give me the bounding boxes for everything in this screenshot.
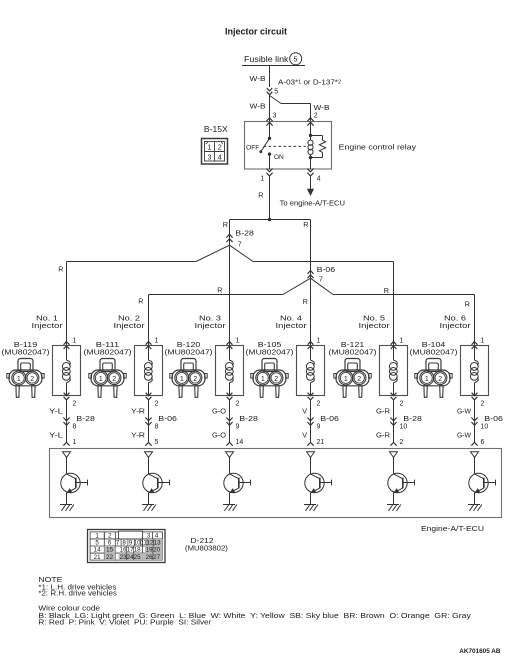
wire R from relay pin 1 xyxy=(269,176,271,220)
svg-text:R: R xyxy=(384,286,389,295)
svg-text:2: 2 xyxy=(73,401,77,408)
label B-28 (injector 1) xyxy=(76,414,95,423)
injector 5 terminal 1 chevrons xyxy=(391,342,397,349)
injector 3 terminal 2 chevrons xyxy=(227,393,233,400)
svg-text:7: 7 xyxy=(238,241,242,248)
in-line connector B-28 chevrons (injector 3) xyxy=(226,418,232,426)
svg-text:2: 2 xyxy=(438,376,442,383)
in-line connector B-06 chevrons (injector 6) xyxy=(471,418,477,426)
svg-text:8: 8 xyxy=(73,423,77,430)
svg-text:9: 9 xyxy=(129,540,133,547)
wire B-06 fan right diagonal xyxy=(311,278,334,294)
pin 7 of B-06 xyxy=(319,276,323,283)
relay switch arm (OFF position) xyxy=(259,138,269,153)
wire W-B from fusible link xyxy=(269,66,271,88)
svg-text:1: 1 xyxy=(73,337,77,344)
injector 1 coil box xyxy=(53,346,81,396)
relay pin 3 terminal chevrons xyxy=(266,118,272,126)
label B-28 (injector 5) xyxy=(403,414,422,423)
svg-text:6: 6 xyxy=(481,439,485,446)
wire colour code heading xyxy=(38,605,100,612)
svg-text:B-28: B-28 xyxy=(235,229,254,238)
pin 14 of engine-A/T-ECU xyxy=(236,439,244,446)
injector 2 coil xyxy=(144,346,152,396)
connector B-104 label xyxy=(410,340,458,357)
svg-text:27: 27 xyxy=(153,554,160,561)
pin 1 of injector 3 xyxy=(236,337,240,344)
transistor Q5 xyxy=(388,457,415,504)
svg-text:B-06: B-06 xyxy=(158,414,177,423)
wire right drop to B-06 xyxy=(310,220,312,279)
svg-text:Injector: Injector xyxy=(32,321,64,330)
in-line connector B-06 chevrons (injector 4) xyxy=(307,418,313,426)
label V (lower) xyxy=(302,430,307,439)
connector B-120 label xyxy=(165,340,213,357)
relay switch link (dashed) xyxy=(264,145,306,147)
wire bus to injector 5 xyxy=(253,261,394,263)
svg-text:1: 1 xyxy=(95,533,99,540)
ECU terminal chevron (injector 5) xyxy=(390,443,396,446)
in-line connector B-28 chevrons xyxy=(226,234,232,242)
svg-text:W-B: W-B xyxy=(250,74,266,83)
svg-text:14: 14 xyxy=(236,439,244,446)
pin 2 of engine control relay xyxy=(314,112,318,119)
svg-text:R: R xyxy=(138,297,143,306)
label B-06 (injector 6) xyxy=(484,414,503,423)
connector B-15X label xyxy=(204,125,229,134)
svg-text:22: 22 xyxy=(106,554,113,561)
label B-06 (injector 4) xyxy=(320,414,339,423)
wire to relay pin 3 xyxy=(269,95,271,122)
svg-text:1: 1 xyxy=(236,337,240,344)
label R (left drop) xyxy=(223,220,228,229)
pin 6 of engine-A/T-ECU xyxy=(481,439,485,446)
label B-06 xyxy=(317,265,336,274)
transistor Q3 xyxy=(224,457,251,504)
svg-text:(MU802047): (MU802047) xyxy=(84,348,132,357)
pin 7 of B-28 xyxy=(238,241,242,248)
label G-R (upper) xyxy=(376,406,390,415)
pin 1 of injector 2 xyxy=(155,337,159,344)
relay switch common node xyxy=(268,122,271,140)
note heading xyxy=(38,577,62,584)
injector 6 terminal 1 chevrons xyxy=(472,342,478,349)
svg-text:Y-R: Y-R xyxy=(131,406,145,415)
ECU connector triangle (circuit 5) xyxy=(390,452,398,458)
svg-text:2: 2 xyxy=(314,112,318,119)
pin 1 of engine-A/T-ECU xyxy=(73,439,77,446)
in-line connector B-28 chevrons (injector 1) xyxy=(63,418,69,426)
svg-text:2: 2 xyxy=(193,376,197,383)
connector B-105 icon xyxy=(251,359,288,398)
svg-text:ON: ON xyxy=(274,154,284,161)
svg-text:9: 9 xyxy=(236,423,240,430)
wire left drop to B-28 xyxy=(229,220,231,246)
injector 4 terminal 2 chevrons xyxy=(308,393,314,400)
svg-text:1: 1 xyxy=(400,337,404,344)
svg-text:G-O: G-O xyxy=(212,430,226,439)
svg-text:2: 2 xyxy=(30,376,34,383)
ground (circuit 1) xyxy=(60,505,74,511)
label R (injector 5 wire) xyxy=(384,286,389,295)
svg-text:B-06: B-06 xyxy=(484,414,503,423)
label OFF xyxy=(246,144,259,151)
label No. 3 Injector xyxy=(195,314,227,330)
relay pin 2 terminal chevrons xyxy=(307,118,313,126)
svg-text:19: 19 xyxy=(146,547,153,554)
connector B-111 label xyxy=(84,340,132,357)
svg-text:R: R xyxy=(223,220,228,229)
pin 1 of injector 4 xyxy=(317,337,321,344)
wire injector 1 to ECU xyxy=(66,400,68,443)
svg-text:6: 6 xyxy=(108,540,112,547)
label No. 4 Injector xyxy=(276,314,308,330)
connector B-15X pinout xyxy=(202,139,228,165)
wire bus to injector 1 xyxy=(67,261,197,263)
label V (upper) xyxy=(302,406,307,415)
wire injector 5 to ECU xyxy=(393,400,395,443)
svg-text:A-03*1 or D-137*2: A-03*1 or D-137*2 xyxy=(278,78,341,87)
svg-text:2: 2 xyxy=(218,143,222,152)
svg-text:1: 1 xyxy=(261,175,265,182)
svg-text:7: 7 xyxy=(319,276,323,283)
svg-text:25: 25 xyxy=(134,554,141,561)
label Engine-A/T-ECU xyxy=(421,524,484,533)
label No. 5 Injector xyxy=(359,314,391,330)
label R (injector 1 wire) xyxy=(58,265,63,274)
ECU connector triangle (circuit 1) xyxy=(63,452,71,458)
svg-text:R: R xyxy=(465,300,470,309)
pin 21 of engine-A/T-ECU xyxy=(317,439,325,446)
connector B-120 icon xyxy=(170,359,207,398)
pin 2 of injector 5 xyxy=(400,401,404,408)
svg-text:2: 2 xyxy=(155,401,159,408)
label No. 2 Injector xyxy=(114,314,146,330)
pin 5 of A-03 xyxy=(274,88,278,95)
svg-text:Injector: Injector xyxy=(114,321,146,330)
svg-text:1: 1 xyxy=(155,337,159,344)
svg-text:G-W: G-W xyxy=(457,430,471,439)
injector 5 coil xyxy=(389,346,397,396)
svg-text:R: R xyxy=(217,286,222,295)
injector 3 coil xyxy=(225,346,233,396)
svg-text:G-R: G-R xyxy=(376,406,390,415)
wire from relay pin 4 to A/T-ECU xyxy=(307,176,314,196)
ground (circuit 4) xyxy=(304,505,318,511)
label G-R (lower) xyxy=(376,430,390,439)
wire drop to injector 1 xyxy=(66,262,68,346)
svg-text:15: 15 xyxy=(106,547,113,554)
svg-text:(MU802047): (MU802047) xyxy=(165,348,213,357)
engine-A/T-ECU box xyxy=(50,449,502,518)
ECU connector triangle (circuit 6) xyxy=(471,452,479,458)
fusible link bus bar xyxy=(242,65,305,67)
svg-text:B-06: B-06 xyxy=(317,265,336,274)
in-line connector B-06 chevrons xyxy=(307,271,313,279)
connector B-119 label xyxy=(2,340,50,357)
pin 2 of injector 2 xyxy=(155,401,159,408)
svg-text:1: 1 xyxy=(99,376,103,383)
label Y-R (lower) xyxy=(131,430,145,439)
label G-O (lower) xyxy=(212,430,226,439)
pin 2 of injector 4 xyxy=(317,401,321,408)
svg-text:8: 8 xyxy=(155,423,159,430)
wire drop to injector 4 xyxy=(310,278,312,345)
connector D-212 label xyxy=(185,536,228,552)
svg-text:3: 3 xyxy=(147,533,151,540)
svg-text:1: 1 xyxy=(481,337,485,344)
svg-text:R: Red P: Pink V: Violet PU: R: Red P: Pink V: Violet PU: Purple SI: … xyxy=(38,620,212,627)
note *1 xyxy=(38,584,117,591)
wire bus to injector 6 xyxy=(333,294,475,296)
wire B-28 fan right diagonal xyxy=(230,245,254,261)
svg-text:5: 5 xyxy=(155,439,159,446)
in-line connector B-06 chevrons (injector 2) xyxy=(145,418,151,426)
injector 4 coil xyxy=(306,346,314,396)
svg-text:G-R: G-R xyxy=(376,430,390,439)
relay pin 1 terminal chevrons xyxy=(266,169,272,177)
svg-text:14: 14 xyxy=(94,547,101,554)
pin 3 of engine control relay xyxy=(273,112,277,119)
svg-text:V: V xyxy=(302,430,307,439)
transistor Q2 xyxy=(143,457,170,504)
svg-text:1: 1 xyxy=(261,376,265,383)
svg-text:26: 26 xyxy=(146,554,153,561)
svg-text:2: 2 xyxy=(400,439,404,446)
svg-text:3: 3 xyxy=(208,152,212,161)
svg-text:21: 21 xyxy=(317,439,325,446)
label W-B (left branch) xyxy=(250,102,266,111)
in-line connector B-28 chevrons (injector 5) xyxy=(390,418,396,426)
svg-text:20: 20 xyxy=(153,547,160,554)
title: Injector circuit xyxy=(225,27,287,37)
svg-text:5: 5 xyxy=(95,540,99,547)
connector A-03/D-137 label xyxy=(278,78,341,87)
svg-text:3: 3 xyxy=(273,112,277,119)
svg-text:Y-L: Y-L xyxy=(49,430,63,439)
pin 8 of B-28 xyxy=(73,423,77,430)
relay coil xyxy=(308,136,313,158)
ECU connector triangle (circuit 4) xyxy=(307,452,315,458)
drawing code AK701605AB xyxy=(459,648,500,655)
pin 4 of engine control relay xyxy=(317,175,321,182)
label B-28 (injector 3) xyxy=(239,414,258,423)
label R (injector 2 wire) xyxy=(138,297,143,306)
injector 1 coil xyxy=(62,346,70,396)
note *2 xyxy=(38,591,117,598)
label B-06 (injector 2) xyxy=(158,414,177,423)
svg-text:2: 2 xyxy=(108,533,112,540)
svg-text:(MU802047): (MU802047) xyxy=(410,348,458,357)
svg-text:G-W: G-W xyxy=(457,406,471,415)
wire colour code line 2 xyxy=(38,620,212,627)
svg-text:1: 1 xyxy=(73,439,77,446)
relay pin 4 terminal chevrons xyxy=(307,169,313,177)
ground (circuit 2) xyxy=(142,505,156,511)
svg-text:4: 4 xyxy=(218,152,222,161)
pin 1 of injector 1 xyxy=(73,337,77,344)
svg-text:5: 5 xyxy=(294,57,298,64)
svg-text:R: R xyxy=(303,220,308,229)
svg-text:21: 21 xyxy=(94,554,101,561)
svg-text:B-28: B-28 xyxy=(239,414,258,423)
relay coil bottom node xyxy=(309,156,312,169)
label R (injector 6 wire) xyxy=(465,300,470,309)
svg-text:2: 2 xyxy=(317,401,321,408)
svg-text:(MU803802): (MU803802) xyxy=(185,543,228,552)
svg-text:1: 1 xyxy=(17,376,21,383)
wire bus to injector 2 xyxy=(149,294,284,296)
svg-text:NOTE: NOTE xyxy=(38,577,62,584)
wire branch to relay pin 2 xyxy=(270,96,311,122)
connector B-105 label xyxy=(246,340,294,357)
svg-text:Y-R: Y-R xyxy=(131,430,145,439)
pin 2 of injector 3 xyxy=(236,401,240,408)
ECU terminal chevron (injector 4) xyxy=(307,443,313,446)
injector 6 coil box xyxy=(461,346,489,396)
svg-text:B-06: B-06 xyxy=(320,414,339,423)
svg-text:2: 2 xyxy=(400,401,404,408)
injector 3 terminal 1 chevrons xyxy=(227,342,233,349)
svg-text:B-15X: B-15X xyxy=(204,125,229,134)
svg-text:4: 4 xyxy=(317,175,321,182)
connector B-119 icon xyxy=(7,359,44,398)
injector 1 terminal 1 chevrons xyxy=(64,342,70,349)
svg-text:10: 10 xyxy=(400,423,408,430)
injector 3 coil box xyxy=(216,346,244,396)
connector B-121 label xyxy=(329,340,377,357)
pin 5 of engine-A/T-ECU xyxy=(155,439,159,446)
label R (injector 4 wire) xyxy=(303,297,308,306)
svg-text:Wire colour code: Wire colour code xyxy=(38,605,100,612)
label G-O (upper) xyxy=(212,406,226,415)
svg-text:10: 10 xyxy=(481,423,489,430)
svg-text:Fusible link: Fusible link xyxy=(244,55,289,64)
wire colour code line 1 xyxy=(38,613,471,620)
label Y-R (upper) xyxy=(131,406,145,415)
label R (relay output) xyxy=(258,191,263,200)
ECU terminal chevron (injector 6) xyxy=(471,443,477,446)
injector 1 terminal 2 chevrons xyxy=(64,393,70,400)
svg-text:1: 1 xyxy=(208,143,212,152)
injector 4 coil box xyxy=(297,346,325,396)
wire injector 6 to ECU xyxy=(474,400,476,443)
svg-text:(MU802047): (MU802047) xyxy=(2,348,50,357)
wire drop to injector 2 xyxy=(148,295,150,346)
svg-text:OFF: OFF xyxy=(246,144,259,151)
pin 2 of injector 6 xyxy=(481,401,485,408)
pin 2 of injector 1 xyxy=(73,401,77,408)
injector 6 coil xyxy=(470,346,478,396)
svg-text:W-B: W-B xyxy=(250,102,266,111)
connector B-121 icon xyxy=(334,359,371,398)
ground (circuit 6) xyxy=(468,505,482,511)
wire injector 3 to ECU xyxy=(229,400,231,443)
svg-text:(MU802047): (MU802047) xyxy=(329,348,377,357)
svg-text:13: 13 xyxy=(154,540,161,547)
relay coil top node xyxy=(309,122,312,138)
wire B-28 fan left diagonal xyxy=(196,245,230,261)
ground (circuit 5) xyxy=(387,505,401,511)
svg-text:2: 2 xyxy=(236,401,240,408)
fusible link label xyxy=(244,55,289,64)
svg-text:2: 2 xyxy=(357,376,361,383)
wire injector 2 to ECU xyxy=(148,400,150,443)
label Engine control relay xyxy=(339,143,417,152)
svg-text:Injector: Injector xyxy=(195,321,227,330)
svg-text:AK701605 AB: AK701605 AB xyxy=(459,648,500,655)
relay ON contact xyxy=(268,152,271,169)
wire drop to injector 6 xyxy=(474,295,476,346)
injector 5 coil box xyxy=(380,346,408,396)
pin 1 of injector 5 xyxy=(400,337,404,344)
svg-text:1: 1 xyxy=(317,337,321,344)
label No. 6 Injector xyxy=(440,314,472,330)
wire drop to injector 5 xyxy=(393,262,395,346)
transistor Q6 xyxy=(469,457,496,504)
ECU connector triangle (circuit 2) xyxy=(145,452,153,458)
injector 2 coil box xyxy=(135,346,163,396)
fusible link number 5 (circled) xyxy=(290,53,302,65)
label Y-L (lower) xyxy=(49,430,63,439)
pin 2 of engine-A/T-ECU xyxy=(400,439,404,446)
svg-text:18: 18 xyxy=(134,547,141,554)
label No. 1 Injector xyxy=(32,314,64,330)
ECU terminal chevron (injector 1) xyxy=(63,443,69,446)
pin 1 of engine control relay xyxy=(261,175,265,182)
svg-text:R: R xyxy=(303,297,308,306)
ECU connector triangle (circuit 3) xyxy=(226,452,234,458)
svg-text:1: 1 xyxy=(344,376,348,383)
label ON xyxy=(274,154,284,161)
pin 10 of B-28 xyxy=(400,423,408,430)
pin 1 of injector 6 xyxy=(481,337,485,344)
connector B-111 icon xyxy=(89,359,126,398)
svg-text:2: 2 xyxy=(112,376,116,383)
svg-text:R: R xyxy=(258,191,263,200)
transistor Q1 xyxy=(61,457,88,504)
svg-text:4: 4 xyxy=(155,533,159,540)
engine control relay box xyxy=(245,122,332,170)
label B-28 xyxy=(235,229,254,238)
injector 2 terminal 1 chevrons xyxy=(146,342,152,349)
svg-text:Injector circuit: Injector circuit xyxy=(225,27,287,37)
junction node (R bus) xyxy=(268,218,271,221)
svg-text:Injector: Injector xyxy=(440,321,472,330)
svg-text:V: V xyxy=(302,406,307,415)
label Y-L (upper) xyxy=(49,406,63,415)
svg-text:Injector: Injector xyxy=(276,321,308,330)
label To engine-A/T-ECU xyxy=(280,199,345,208)
svg-text:5: 5 xyxy=(274,88,278,95)
pin 10 of B-06 xyxy=(481,423,489,430)
label R (right drop) xyxy=(303,220,308,229)
svg-text:*2: R.H. drive vehicles: *2: R.H. drive vehicles xyxy=(38,591,117,598)
wire injector 4 to ECU xyxy=(310,400,312,443)
pin 9 of B-28 xyxy=(236,423,240,430)
injector 2 terminal 2 chevrons xyxy=(146,393,152,400)
svg-text:G-O: G-O xyxy=(212,406,226,415)
label G-W (upper) xyxy=(457,406,471,415)
transistor Q4 xyxy=(305,457,332,504)
injector 5 terminal 2 chevrons xyxy=(391,393,397,400)
label R (injector 3 wire) xyxy=(217,286,222,295)
injector 4 terminal 1 chevrons xyxy=(308,342,314,349)
in-line connector A-03 chevrons xyxy=(267,88,272,95)
svg-text:2: 2 xyxy=(481,401,485,408)
svg-text:R: R xyxy=(58,265,63,274)
svg-text:B-28: B-28 xyxy=(76,414,95,423)
